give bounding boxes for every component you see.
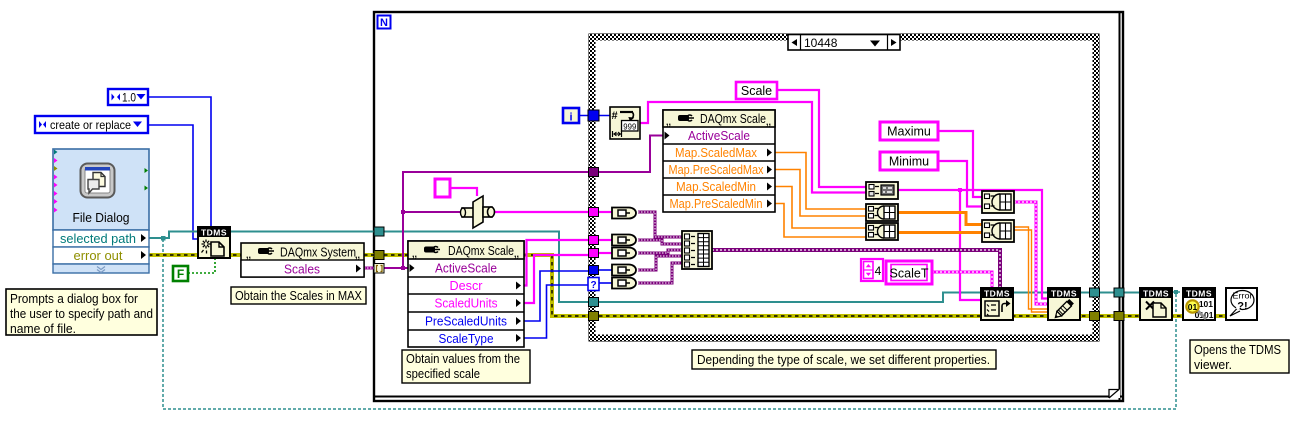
- wire: olive error loop tunnel to DAQmx Scale property node: [384, 253, 408, 257]
- svg-text:error out: error out: [74, 249, 124, 263]
- property node: DAQmx System: [241, 243, 364, 277]
- wire: pink string funnel output to case tunnel: [493, 211, 589, 213]
- svg-text:TDMS: TDMS: [984, 289, 1010, 299]
- wire: olive error case to loop to TDMS Close Viewer Handler: [1100, 314, 1226, 318]
- wire: pink string ScaledUnits to case tunnel: [524, 255, 589, 303]
- wire: blue TDMS version from 1.0 constant to TDMS Open top: [148, 97, 211, 227]
- wire: teal TDMS refnum inside case to Set Properties and Write: [599, 293, 1090, 303]
- function: name to string funnel: [461, 196, 495, 228]
- wire: purple scale name scalar inside loop with branches: [384, 172, 589, 270]
- wire: blue iteration i to case tunnel to NumToStr: [579, 115, 610, 117]
- wire: teal dashed path long run to TDMS File Viewer: [163, 239, 1183, 409]
- wire: pink string node A output to TDMS Write and SetProperties branch: [898, 188, 1048, 300]
- VI: Simple Error Handler: [1226, 288, 1257, 320]
- wire: teal TDMS refnum from Open into for loop to case: [230, 232, 589, 303]
- wire: teal refnum case to loop border to TDMS Close: [1100, 292, 1140, 294]
- svg-text:DAQmx System: DAQmx System: [280, 246, 356, 260]
- tunnel: loop right teal refnum: [1114, 288, 1124, 297]
- function: To Variant node 5: [612, 278, 636, 289]
- function: To Variant node 3: [612, 248, 636, 259]
- case selector label 10448: [788, 35, 900, 51]
- comment: Obtain the Scales in MAX: [231, 287, 366, 304]
- function: To Variant node 1: [612, 208, 636, 219]
- wire: variant array Build Array output to TDMS SetProperties top: [712, 250, 1000, 288]
- svg-text:N: N: [380, 17, 388, 29]
- VI: TDMS Open: [198, 227, 230, 258]
- constant: string Maximu: [880, 122, 938, 140]
- comment: Depending the type of scale: [692, 350, 996, 369]
- svg-text:selected path: selected path: [60, 232, 136, 246]
- property node: DAQmx Scale (inner, Map properties): [663, 110, 775, 212]
- svg-text:Maximu: Maximu: [887, 125, 931, 139]
- svg-text:101: 101: [1199, 299, 1213, 309]
- function: Number To Decimal String: [610, 107, 640, 139]
- svg-text:the user to specify path and: the user to specify path and: [10, 307, 153, 321]
- for loop count terminal N: [378, 16, 391, 30]
- wire: olive error inside case to SetProperties and Write: [599, 314, 1090, 318]
- svg-text:1.0: 1.0: [122, 93, 136, 105]
- wire: olive error DAQmx Scale PN to case tunnel: [524, 255, 589, 316]
- wire: olive error DAQmx System to for loop tunnel: [364, 253, 379, 257]
- wire: beaded string array node D output to TDMS Write: [1014, 202, 1048, 304]
- function: To Variant node 4: [612, 265, 636, 276]
- constant: enum 1.0: [108, 89, 148, 105]
- function: node C build array dbl pair: [866, 223, 898, 240]
- svg-text:4: 4: [875, 264, 882, 278]
- svg-text:File Dialog: File Dialog: [73, 211, 130, 225]
- wire: pink string Scale constant to node A upper input: [777, 90, 866, 187]
- tunnel: case left purple scale name: [589, 168, 599, 177]
- svg-text:DAQmx Scale: DAQmx Scale: [700, 112, 766, 126]
- svg-text:#: #: [612, 110, 618, 122]
- svg-text:i: i: [569, 112, 572, 124]
- wire: pink tunnel stubs to To Variant nodes: [599, 212, 612, 253]
- svg-text:DAQmx Scale: DAQmx Scale: [448, 244, 514, 258]
- svg-text:Minimu: Minimu: [889, 155, 929, 169]
- tunnel: case left blue iteration: [588, 110, 599, 121]
- tunnel: case left magenta string 2: [589, 236, 599, 245]
- tunnel: case left blue enum: [589, 266, 599, 275]
- svg-text:10448: 10448: [804, 36, 838, 50]
- svg-text:,,: ,,: [246, 250, 251, 260]
- constant: empty string: [435, 179, 450, 197]
- wire: blue PreScaledUnits to case tunnel: [524, 271, 589, 321]
- tunnel: loop right olive error: [1114, 312, 1124, 321]
- wire: orange Map.ScaledMin to node C top: [775, 187, 866, 229]
- VI: TDMS Write: [1048, 288, 1080, 320]
- svg-text:TDMS: TDMS: [1051, 289, 1077, 299]
- comment: Opens the TDMS viewer: [1190, 340, 1289, 373]
- svg-text:,,: ,,: [514, 249, 519, 259]
- svg-text:Opens the TDMS: Opens the TDMS: [1194, 343, 1281, 357]
- function: node E build array 2d: [982, 220, 1014, 242]
- wire: pink string NumToStr output long run to node A lower input: [640, 102, 866, 193]
- svg-text:,,: ,,: [766, 117, 771, 127]
- wire: teal path selected-path to TDMS Open: [149, 232, 198, 241]
- wire: pink string Minimu constant to node D bottom: [938, 161, 982, 207]
- comment: Prompts a dialog box: [6, 289, 157, 336]
- tunnel: loop left olive error: [374, 251, 384, 260]
- svg-text:01: 01: [1188, 302, 1198, 312]
- constant: string array element ScaleT: [886, 261, 932, 284]
- function: node D build array string pair: [982, 191, 1014, 213]
- svg-text:F: F: [177, 267, 184, 281]
- function: node A variant to flattened string: [866, 182, 898, 199]
- tunnel: case right teal refnum: [1090, 288, 1100, 297]
- VI: TDMS Close: [1140, 288, 1172, 320]
- wire: orange array node C output to node E bottom: [898, 231, 982, 234]
- wire: orange Map.ScaledMax to node B top: [775, 153, 866, 210]
- svg-text:TDMS: TDMS: [1186, 289, 1212, 299]
- property node: DAQmx Scale (left, 5 properties): [408, 241, 524, 347]
- VI: TDMS Set Properties: [981, 288, 1013, 320]
- svg-text:Map.ScaledMax: Map.ScaledMax: [675, 146, 758, 160]
- function: To Variant node 2: [612, 235, 636, 246]
- wire: purple scale name inside case to inner DAQmx Scale ActiveScale: [599, 136, 663, 173]
- wire: orange 2D array node E output to TDMS Write: [1014, 227, 1048, 312]
- terminal: loop iteration i: [563, 108, 579, 124]
- wire: purple beaded scale names array Scales to loop auto-index tunnel: [364, 267, 374, 270]
- VI: TDMS File Viewer: [1183, 288, 1215, 320]
- wire: pink string Maximu constant to node D top: [938, 131, 982, 197]
- svg-text:PreScaledUnits: PreScaledUnits: [425, 315, 507, 329]
- svg-text:Scales: Scales: [284, 263, 320, 277]
- svg-text:Map.PreScaledMax: Map.PreScaledMax: [669, 163, 765, 177]
- tunnel: case left magenta string 1: [589, 208, 599, 217]
- constant: string Scale: [736, 82, 777, 99]
- svg-text:Obtain the Scales in MAX: Obtain the Scales in MAX: [235, 289, 363, 303]
- svg-text:specified scale: specified scale: [406, 367, 480, 381]
- svg-text:ActiveScale: ActiveScale: [688, 129, 750, 143]
- tunnel: loop left auto-index scales array: [374, 264, 384, 274]
- wire: variant outputs of To Variant nodes into Build Array: [638, 212, 682, 283]
- for loop border: [374, 12, 1123, 401]
- case structure hatched border: [589, 34, 1099, 341]
- wire: blue tunnel stubs to To Variant nodes: [599, 270, 612, 283]
- tunnel: case left magenta string 3: [589, 249, 599, 258]
- constant: string array index 4 spinner: [861, 259, 883, 281]
- svg-text:Depending the type of scale, w: Depending the type of scale, we set diff…: [697, 353, 990, 367]
- svg-text:Prompts a dialog box for: Prompts a dialog box for: [10, 292, 138, 306]
- svg-text:ActiveScale: ActiveScale: [435, 262, 497, 276]
- svg-text:Descr: Descr: [450, 279, 483, 293]
- function: Build Array: [682, 231, 712, 269]
- svg-text:ScaleT: ScaleT: [890, 267, 929, 281]
- tunnel: case left teal refnum: [589, 298, 599, 307]
- svg-text:Map.PreScaledMin: Map.PreScaledMin: [670, 197, 763, 211]
- wire: olive error File Dialog to TDMS Open to DAQmx System: [149, 253, 241, 257]
- tunnel: case selector question mark: [588, 278, 599, 292]
- tunnel: case left olive error: [589, 312, 599, 321]
- tunnel: loop left teal refnum: [374, 227, 384, 236]
- wire: orange Map.PreScaledMin to node C bottom: [775, 204, 866, 238]
- tunnel: case right olive error: [1090, 312, 1100, 321]
- svg-text:viewer.: viewer.: [1194, 358, 1232, 372]
- constant: boolean F: [173, 266, 188, 281]
- wire: pink string Descr to case tunnel: [524, 240, 589, 286]
- svg-text:ScaledUnits: ScaledUnits: [435, 297, 498, 311]
- wire: blue ScaleType to case selector tunnel: [524, 285, 589, 338]
- svg-text:Obtain values from the: Obtain values from the: [406, 352, 520, 366]
- svg-text:999: 999: [623, 121, 636, 131]
- svg-text:Error: Error: [1233, 292, 1253, 301]
- svg-text:ScaleType: ScaleType: [439, 332, 494, 346]
- constant: enum create or replace: [35, 116, 148, 133]
- svg-text:TDMS: TDMS: [1143, 289, 1169, 299]
- express VI: File Dialog: [53, 149, 149, 273]
- svg-text:,,: ,,: [412, 249, 417, 259]
- wire: orange array node B output to node E top: [898, 213, 982, 225]
- svg-text:?!: ?!: [1237, 301, 1247, 313]
- svg-text:create or replace: create or replace: [50, 118, 131, 132]
- comment: Obtain values from the specified scale: [402, 350, 530, 383]
- wire: blue enum create-or-replace to TDMS Open left: [148, 125, 198, 239]
- wire: pink string empty string constant into funnel node: [450, 188, 477, 196]
- wire: green boolean F constant to TDMS Open: [188, 258, 215, 273]
- svg-text:Scale: Scale: [741, 84, 772, 98]
- svg-text:?: ?: [590, 280, 596, 291]
- svg-text:,,: ,,: [666, 117, 671, 127]
- function: node B build array dbl pair: [866, 204, 898, 221]
- svg-text:TDMS: TDMS: [201, 228, 227, 238]
- svg-text:name of file.: name of file.: [10, 322, 76, 336]
- constant: string Minimu: [880, 152, 938, 170]
- for loop corner dog-ear: [1109, 389, 1120, 398]
- wire: orange Map.PreScaledMax to node B bottom: [775, 170, 866, 217]
- wire: beaded string array ScaleT constant to SetProperties top: [932, 272, 992, 288]
- svg-text:Map.ScaledMin: Map.ScaledMin: [676, 180, 756, 194]
